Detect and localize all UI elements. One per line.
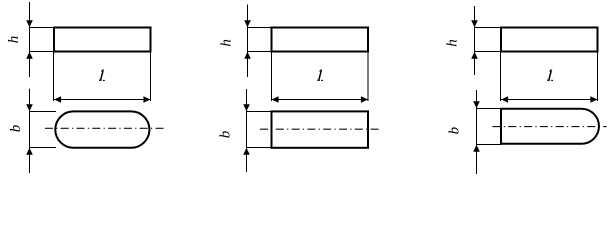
arrowhead h bottom (fig2) [244, 52, 251, 59]
dimension h line (fig1) [29, 2, 31, 77]
arrowhead b top (fig1) [26, 104, 33, 111]
top view shape one rounded end (fig3) [501, 109, 599, 144]
side view rectangle (fig1) [54, 28, 151, 52]
dimension b line (fig2) [246, 89, 248, 172]
svg-text:h: h [219, 39, 235, 47]
arrowhead l left (fig1) [54, 96, 61, 103]
extension line b bottom (fig2) [247, 147, 272, 149]
extension line b top (fig1) [30, 111, 57, 113]
dimension l line (fig2) [272, 99, 369, 101]
extension line h bottom (fig1) [30, 51, 55, 53]
arrowhead l right (fig2) [361, 96, 368, 103]
arrowhead b bottom (fig3) [473, 145, 480, 152]
extension line l left (fig1) [53, 52, 55, 102]
svg-text:b: b [446, 126, 462, 134]
label l (fig1) [99, 70, 105, 80]
svg-text:b: b [8, 124, 24, 132]
extension line l right (fig3) [597, 52, 599, 102]
side view rectangle (fig2) [272, 28, 369, 52]
dimension b line (fig1) [29, 89, 31, 173]
extension line h top (fig3) [475, 27, 502, 29]
arrowhead h top (fig3) [471, 20, 478, 27]
arrowhead l left (fig3) [501, 96, 508, 103]
svg-text:h: h [6, 36, 22, 44]
extension line h top (fig1) [30, 27, 55, 29]
arrowhead l right (fig1) [143, 96, 150, 103]
dimension l line (fig3) [501, 99, 598, 101]
extension line l right (fig1) [150, 52, 152, 102]
arrowhead b top (fig2) [243, 104, 250, 111]
arrowhead b top (fig3) [473, 101, 480, 108]
top view rectangle (fig2) [272, 111, 369, 147]
dimension h line (fig3) [474, 6, 476, 75]
extension line l left (fig2) [271, 52, 273, 102]
arrowhead b bottom (fig1) [26, 148, 33, 155]
label l (fig3) [547, 70, 553, 80]
centerline dash-dot (fig2) [260, 128, 382, 130]
extension line b top (fig3) [477, 108, 502, 110]
svg-text:b: b [217, 130, 233, 138]
svg-text:h: h [445, 39, 461, 47]
side view rectangle (fig3) [501, 28, 598, 52]
extension line h bottom (fig3) [475, 51, 502, 53]
extension line b bottom (fig3) [477, 144, 502, 146]
centerline dash-dot (fig1) [45, 127, 166, 129]
arrowhead h bottom (fig1) [26, 52, 33, 59]
dimension l line (fig1) [54, 99, 151, 101]
centerline dash-dot (fig3) [493, 126, 607, 128]
extension line h top (fig2) [248, 27, 272, 29]
arrowhead h top (fig1) [26, 20, 33, 27]
dimension b line (fig3) [476, 90, 478, 174]
arrowhead l left (fig2) [272, 96, 279, 103]
dimension h line (fig2) [247, 5, 249, 78]
extension line b bottom (fig1) [30, 147, 57, 149]
arrowhead h top (fig2) [244, 20, 251, 27]
arrowhead h bottom (fig3) [471, 52, 478, 59]
label l (fig2) [317, 70, 323, 80]
extension line h bottom (fig2) [248, 51, 272, 53]
arrowhead b bottom (fig2) [243, 148, 250, 155]
extension line l right (fig2) [367, 52, 369, 102]
top view stadium shape (fig1) [55, 111, 149, 147]
extension line l left (fig3) [500, 52, 502, 102]
extension line b top (fig2) [247, 111, 272, 113]
arrowhead l right (fig3) [590, 96, 597, 103]
